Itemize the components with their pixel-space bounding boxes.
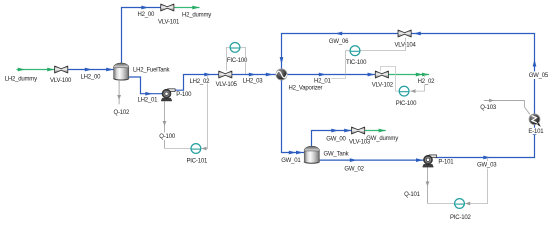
svg-text:LH2_02: LH2_02: [190, 79, 211, 85]
tank LH2_FuelTank: [114, 63, 129, 80]
svg-text:GW_05: GW_05: [529, 73, 549, 79]
wire LH2_02 pump to VLV-105: [174, 75, 219, 91]
wire LH2_01 tank to pump P-100: [129, 77, 162, 94]
svg-text:TIC-100: TIC-100: [346, 60, 367, 66]
energy stream Q-100: [164, 101, 166, 148]
pump P-101: [423, 155, 437, 167]
signal line TIC-100 to VLV-104 (OP): [360, 38, 406, 51]
signal line PIC-101 to LH2_02 (PV): [201, 75, 208, 149]
svg-text:Q-103: Q-103: [480, 105, 497, 111]
svg-text:PIC-100: PIC-100: [396, 101, 417, 107]
svg-text:VLV-101: VLV-101: [158, 19, 180, 25]
wire H2_02 product (green): [389, 74, 430, 76]
svg-text:P-100: P-100: [176, 92, 192, 98]
signal line PIC-101 to pump P-100 (OP): [165, 148, 191, 150]
valve VLV-104: [398, 30, 411, 37]
wire H2_01 vaporizer to VLV-102: [287, 74, 376, 76]
label Q-100: [159, 133, 177, 140]
energy stream Q-103: [484, 101, 530, 115]
signal line FIC-100 to LH2_03 (PV): [240, 47, 246, 74]
svg-text:PIC-101: PIC-101: [187, 159, 208, 165]
label E-101: [528, 128, 545, 135]
signal line PIC-102 to pump P-101 (OP): [428, 203, 455, 205]
heat exchanger H2_Vaporizer: [276, 69, 287, 80]
wire GW_dummy vent (green): [365, 130, 386, 132]
wire LH2_00 valve to tank (blue): [68, 69, 114, 71]
valve VLV-105: [219, 71, 232, 78]
controller PIC-101: [191, 144, 201, 154]
svg-text:VLV-100: VLV-100: [50, 78, 72, 84]
svg-text:GW_00: GW_00: [326, 136, 346, 142]
wire GW_01 vaporizer to GW_Tank: [282, 80, 305, 153]
valve VLV-101: [161, 4, 174, 11]
svg-text:VLV-105: VLV-105: [216, 82, 238, 88]
signal line FIC-100 to VLV-105 (OP): [227, 47, 231, 70]
svg-text:E-101: E-101: [528, 129, 544, 135]
wire LH2_dummy feed (green): [17, 69, 55, 71]
svg-text:VLV-102: VLV-102: [372, 83, 394, 89]
svg-text:Q-102: Q-102: [114, 110, 131, 116]
svg-text:VLV-104: VLV-104: [395, 42, 417, 48]
svg-text:GW_03: GW_03: [477, 162, 497, 168]
label PIC-101: [186, 157, 209, 163]
wire LH2_03 VLV-105 to vaporizer: [232, 74, 276, 76]
svg-text:GW_dummy: GW_dummy: [366, 136, 398, 142]
label H2_02: [417, 77, 433, 84]
signal line PIC-100 to H2_02 (PV): [410, 75, 425, 91]
valve VLV-103: [352, 127, 365, 134]
wire GW_00 tank top to VLV-103: [312, 131, 352, 147]
svg-text:H2_02: H2_02: [418, 79, 436, 85]
energy stream Q-101: [427, 167, 429, 203]
valve VLV-102: [375, 71, 388, 78]
svg-text:H2_dummy: H2_dummy: [182, 13, 211, 19]
controller PIC-102: [455, 199, 465, 209]
signal line TIC-100 to H2_01 (PV): [346, 51, 351, 74]
heater E-101: [529, 114, 541, 127]
signal line PIC-100 to VLV-102 (OP): [381, 67, 400, 92]
wire GW_06 VLV-104 to vaporizer: [282, 34, 399, 69]
energy stream Q-102: [118, 81, 120, 104]
label Q-101: [404, 190, 422, 197]
svg-text:LH2_00: LH2_00: [81, 74, 102, 80]
svg-text:Q-101: Q-101: [404, 192, 421, 198]
svg-text:P-101: P-101: [438, 159, 454, 165]
svg-text:H2_01: H2_01: [314, 79, 332, 85]
svg-text:LH2_03: LH2_03: [243, 79, 264, 85]
controller PIC-100: [399, 86, 409, 96]
svg-text:PIC-102: PIC-102: [450, 215, 471, 221]
wire H2_dummy vent (green): [174, 7, 200, 9]
controller FIC-100: [230, 43, 240, 53]
label GW_05: [528, 71, 550, 79]
tank GW_Tank: [304, 146, 319, 163]
signal line PIC-102 to GW_03 (PV): [465, 158, 488, 204]
wire GW_02 tank to pump P-101: [319, 159, 423, 161]
svg-text:H2_Vaporizer: H2_Vaporizer: [289, 86, 323, 92]
wire GW_05 riser E-101 to top: [411, 34, 534, 115]
svg-text:Q-100: Q-100: [159, 134, 176, 140]
wire GW_03 pump to E-101: [435, 125, 535, 158]
label GW_03: [477, 161, 498, 168]
svg-text:GW_01: GW_01: [281, 158, 301, 164]
svg-text:FIC-100: FIC-100: [227, 58, 248, 64]
svg-text:LH2_01: LH2_01: [138, 98, 159, 104]
pump P-100: [161, 89, 175, 101]
controller TIC-100: [350, 46, 360, 56]
svg-text:GW_02: GW_02: [344, 166, 364, 172]
svg-text:H2_00: H2_00: [138, 12, 156, 18]
svg-text:LH2_FuelTank: LH2_FuelTank: [133, 68, 170, 74]
valve VLV-100: [55, 66, 68, 73]
svg-text:GW_Tank: GW_Tank: [324, 152, 350, 158]
svg-text:GW_06: GW_06: [329, 39, 349, 45]
svg-text:LH2_dummy: LH2_dummy: [5, 76, 37, 82]
wire H2_00 tank top to VLV-101: [122, 8, 161, 64]
